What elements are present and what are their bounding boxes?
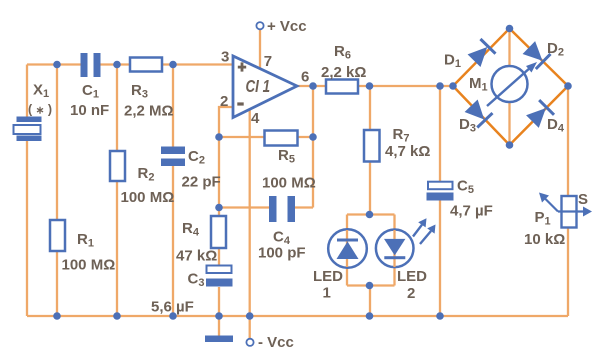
wire pin 4 to -Vcc (249, 110, 251, 339)
svg-text:100 MΩ: 100 MΩ (62, 257, 116, 274)
svg-text:2,2 MΩ: 2,2 MΩ (124, 102, 174, 119)
svg-text:D1: D1 (444, 52, 461, 71)
diode D2 (522, 40, 551, 69)
node C5 top (436, 82, 444, 90)
wire left vertical lower (X1 to bottom rail) (26, 141, 28, 316)
op-amp U1 (CI 1) (233, 56, 297, 118)
wire LED loop bottom (347, 284, 395, 286)
wire bridge right corner to P1 to bottom rail (567, 86, 569, 316)
potentiometer P1 with switch S (539, 193, 592, 228)
svg-text:4: 4 (251, 110, 260, 127)
svg-text:R5: R5 (278, 147, 295, 166)
wire R1 branch (56, 65, 58, 317)
svg-text:4,7 µF: 4,7 µF (450, 203, 493, 220)
node top rail / R2 (113, 61, 121, 69)
node bottom rail / R2 (113, 312, 121, 320)
node bottom rail / C5 (436, 312, 444, 320)
svg-text:CI 1: CI 1 (246, 76, 271, 96)
node bridge right corner (564, 82, 572, 90)
resistor R1 (50, 220, 65, 251)
wire C5 branch lower (439, 201, 441, 317)
svg-text:10 nF: 10 nF (70, 102, 109, 119)
svg-text:47 kΩ: 47 kΩ (176, 248, 217, 265)
resistor R5 (265, 131, 298, 146)
diode D4 (525, 100, 554, 129)
node inverting / R5 left (215, 133, 223, 141)
op-amp minus input mark (237, 102, 243, 105)
svg-text:X1: X1 (33, 82, 49, 101)
wire C4 left segment (219, 206, 269, 208)
wire pin 7 to +Vcc (259, 30, 261, 70)
svg-text:P1: P1 (535, 209, 551, 228)
terminal +Vcc (256, 22, 263, 29)
svg-text:2: 2 (220, 93, 228, 110)
wire bridge meter diagonal (508, 29, 510, 146)
svg-text:R2: R2 (138, 165, 155, 184)
svg-text:M1: M1 (469, 75, 488, 94)
ground bar (205, 336, 233, 343)
node bottom rail / C2 (169, 312, 177, 320)
svg-text:LED: LED (397, 268, 427, 285)
node LED bottom (366, 282, 374, 290)
svg-text:C3: C3 (188, 271, 205, 290)
svg-text:100 MΩ: 100 MΩ (121, 189, 175, 206)
svg-text:R4: R4 (182, 220, 200, 239)
resistor R6 (326, 80, 358, 94)
svg-text:22 pF: 22 pF (182, 174, 221, 191)
wire LED loop top (347, 213, 395, 215)
svg-text:- Vcc: - Vcc (258, 334, 294, 349)
wire C3 to bottom rail (218, 287, 220, 316)
capacitor C4 (269, 196, 295, 222)
svg-text:4,7 kΩ: 4,7 kΩ (385, 143, 430, 160)
LED 2 (376, 230, 414, 268)
svg-text:R1: R1 (77, 231, 94, 250)
wire bottom rail (27, 315, 568, 317)
svg-text:D2: D2 (547, 40, 564, 59)
wire LED loop to bottom rail (369, 286, 371, 317)
wire C4 right segment (295, 206, 313, 208)
wire LED loop right vertical (393, 215, 395, 286)
terminal -Vcc (246, 339, 253, 346)
node bridge left corner (449, 82, 457, 90)
wire top rail left segment (node A: X1/C1) (27, 63, 81, 65)
node bottom rail / LED (366, 312, 374, 320)
svg-text:S: S (578, 191, 588, 208)
svg-text:5,6 µF: 5,6 µF (151, 299, 194, 316)
bridge diamond wiring D1-D4 (453, 29, 568, 146)
wire C5 branch upper (439, 86, 441, 182)
wire R7 branch (369, 86, 371, 215)
node bottom rail / R1 (53, 312, 61, 320)
svg-text:D4: D4 (547, 116, 565, 135)
capacitor C3 (electrolytic) (206, 266, 233, 287)
resistor R3 (130, 58, 162, 72)
svg-text:C2: C2 (188, 148, 205, 167)
svg-text:100 MΩ: 100 MΩ (262, 175, 316, 192)
svg-text:7: 7 (264, 53, 272, 70)
svg-text:R3: R3 (131, 82, 148, 101)
wire pin 2 to inverting node down to C3 (219, 107, 233, 266)
node top rail / R1 (53, 61, 61, 69)
wire op-amp output to bridge left corner (297, 85, 453, 87)
resistor R4 (211, 216, 226, 248)
node bridge bottom corner (506, 141, 514, 149)
LED 2 light arrows (413, 218, 436, 244)
meter M1 (487, 62, 537, 106)
capacitor C5 (electrolytic) (427, 182, 454, 201)
wire C2 branch lower (172, 166, 174, 316)
op-amp plus input mark (238, 62, 246, 71)
svg-text:+ Vcc: + Vcc (267, 18, 307, 35)
resistor R7 (364, 130, 380, 162)
diode D1 (467, 39, 496, 68)
svg-text:3: 3 (221, 49, 229, 66)
svg-text:2,2 kΩ: 2,2 kΩ (321, 64, 366, 81)
wire LED loop left vertical (346, 215, 348, 286)
svg-text:100 pF: 100 pF (258, 245, 306, 262)
svg-text:C1: C1 (82, 82, 99, 101)
node bottom rail / -Vcc (246, 312, 254, 320)
svg-text:C5: C5 (457, 178, 474, 197)
svg-text:D3: D3 (459, 116, 476, 135)
node bridge top corner (506, 25, 514, 33)
crystal X1 (14, 117, 42, 142)
node output pin 6 (309, 82, 317, 90)
svg-text:R7: R7 (393, 126, 410, 145)
wire R2 branch (116, 65, 118, 317)
LED 1 (328, 229, 367, 268)
svg-text:R6: R6 (334, 43, 351, 62)
resistor R2 (110, 151, 125, 181)
wire top rail right segment (C1 to pin 3) (101, 63, 234, 65)
node inverting / C4 left (215, 204, 223, 212)
capacitor C1 (81, 53, 101, 77)
svg-text:1: 1 (323, 285, 331, 302)
wire feedback node to R5 (y=137) (219, 136, 313, 138)
node LED top (366, 211, 374, 219)
svg-text:10 kΩ: 10 kΩ (524, 231, 565, 248)
node bottom rail / C3 ground (215, 312, 223, 320)
wire output vertical x=313 (312, 86, 314, 208)
node R5 right / output vertical (309, 133, 317, 141)
svg-text:LED: LED (313, 268, 343, 285)
diode D3 (464, 99, 493, 128)
wire ground stub below rail (218, 316, 220, 336)
capacitor C2 (161, 147, 185, 167)
svg-text:( ∗ ): ( ∗ ) (28, 103, 52, 117)
node R6 right / R7 (366, 82, 374, 90)
wire C2 branch upper (172, 65, 174, 147)
svg-text:2: 2 (407, 285, 415, 302)
svg-text:6: 6 (301, 69, 309, 86)
wire left vertical upper (to X1) (26, 65, 28, 118)
node top rail / C2 (169, 61, 177, 69)
